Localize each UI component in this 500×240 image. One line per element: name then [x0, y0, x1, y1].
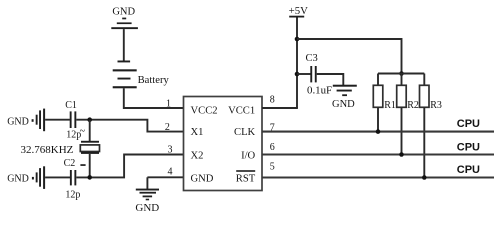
svg-text:CPU: CPU — [457, 118, 480, 130]
RST overline — [236, 170, 255, 172]
stray dash mark — [80, 164, 85, 166]
svg-text:0.1uF: 0.1uF — [307, 85, 332, 97]
wire: RST line to CPU — [262, 176, 494, 178]
svg-text:GND: GND — [7, 116, 29, 127]
svg-text:~: ~ — [80, 126, 86, 137]
svg-text:C3: C3 — [306, 53, 318, 64]
node: +5V / R bus split — [295, 37, 300, 42]
wire: top ground to battery — [123, 29, 125, 61]
wire: top rail to resistor column — [297, 39, 402, 74]
svg-text:+5V: +5V — [289, 5, 308, 17]
svg-text:GND: GND — [7, 174, 29, 185]
wire: R2 down to I/O line — [401, 107, 403, 154]
node: C1/crystal junction — [87, 117, 92, 122]
wire: I/O line to CPU — [262, 153, 494, 155]
svg-text:Battery: Battery — [138, 75, 170, 86]
svg-text:C1: C1 — [65, 100, 77, 111]
svg-text:GND: GND — [135, 202, 159, 214]
wire: C2 row to X2 step up to pin3 — [76, 155, 183, 178]
svg-text:R1: R1 — [384, 100, 396, 111]
+5V rail tick — [289, 16, 304, 18]
svg-text:8: 8 — [270, 94, 275, 105]
op IC U1 body — [184, 97, 263, 191]
wire: R3 down to RST line — [423, 107, 425, 177]
ground symbol GND (left, row 2, rotated earth) — [32, 166, 45, 189]
svg-text:R3: R3 — [430, 100, 442, 111]
wire: bus stub to R2 — [401, 74, 403, 86]
svg-text:12p: 12p — [65, 190, 80, 201]
wire: CLK line to CPU — [262, 131, 494, 133]
svg-text:GND: GND — [112, 7, 135, 18]
svg-text:X2: X2 — [191, 150, 204, 161]
svg-text:3: 3 — [168, 145, 173, 156]
wire: ground to C2 — [45, 176, 70, 178]
svg-text:R2: R2 — [407, 100, 419, 111]
crystal Y1 32.768KHZ — [80, 141, 99, 154]
svg-text:VCC2: VCC2 — [191, 106, 218, 117]
wire: battery to pin1 — [124, 88, 184, 108]
svg-text:X1: X1 — [191, 127, 204, 138]
svg-text:6: 6 — [270, 142, 275, 153]
svg-text:GND: GND — [332, 99, 355, 110]
wire: ground to C1 — [45, 119, 70, 121]
resistor R3 — [420, 85, 430, 107]
wire: to C3 — [297, 73, 311, 75]
node: R3/RST junction — [422, 175, 427, 180]
capacitor C3 — [310, 66, 316, 82]
ground symbol (top, inverted earth) — [111, 18, 138, 30]
svg-text:C2: C2 — [64, 158, 76, 169]
svg-text:CLK: CLK — [234, 127, 256, 138]
node: R2/IO junction — [399, 152, 404, 157]
wire: bus stub to R1 — [377, 74, 379, 86]
wire: junction down to crystal — [89, 120, 91, 143]
wire: resistor top bus — [378, 73, 424, 75]
capacitor C1 — [70, 111, 77, 128]
resistor R1 — [373, 85, 383, 107]
svg-text:GND: GND — [191, 174, 214, 185]
wire: +5V down — [296, 18, 298, 109]
wire: bus stub to R3 — [423, 74, 425, 86]
wire: pin4 down to ground — [146, 177, 148, 189]
wire: C1 to X1 step to pin2 — [76, 120, 183, 132]
svg-text:2: 2 — [165, 122, 170, 133]
capacitor C2 — [70, 170, 76, 185]
resistor R2 — [397, 85, 407, 107]
ground symbol (right of C3, earth) — [333, 85, 357, 96]
svg-text:CPU: CPU — [457, 164, 480, 176]
wire: R1 down to CLK line — [377, 107, 379, 131]
wire: C3 to ground — [317, 74, 344, 86]
ground symbol GND (left, row 1, rotated earth) — [32, 109, 45, 132]
node: C3 junction — [295, 72, 300, 77]
svg-text:CPU: CPU — [457, 142, 480, 154]
svg-text:4: 4 — [168, 166, 173, 177]
battery BT1 — [113, 61, 137, 89]
svg-text:1: 1 — [166, 98, 171, 109]
svg-text:I/O: I/O — [241, 150, 255, 161]
svg-text:32.768KHZ: 32.768KHZ — [21, 144, 74, 156]
node: C2/crystal junction — [87, 175, 92, 180]
wire: crystal down to row2 — [89, 154, 91, 178]
node: R1/CLK junction — [376, 129, 381, 134]
wire: pin4 stub — [147, 176, 183, 178]
node: resistor bus junction — [399, 71, 404, 76]
svg-text:RST: RST — [236, 174, 256, 185]
ground symbol (below pin 4, earth) — [136, 189, 159, 201]
wire: pin8 stub — [262, 107, 298, 109]
svg-text:5: 5 — [270, 162, 275, 173]
svg-text:VCC1: VCC1 — [228, 106, 255, 117]
